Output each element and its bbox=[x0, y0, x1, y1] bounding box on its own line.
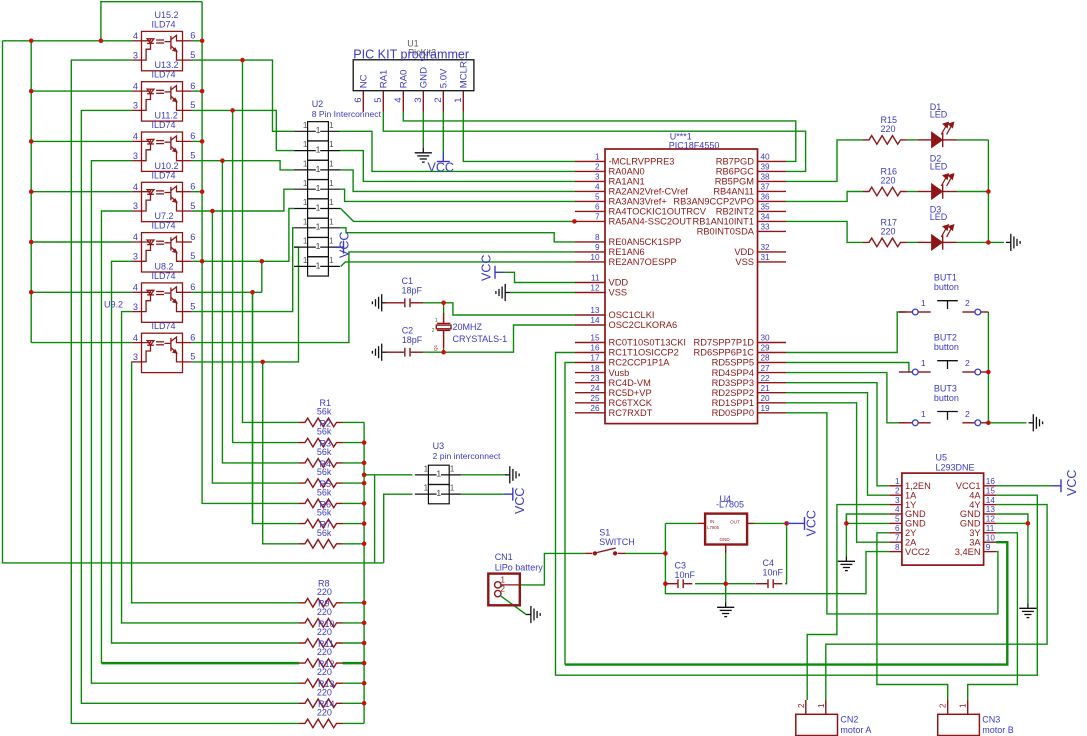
svg-text:RA5AN4-SSC2OUT: RA5AN4-SSC2OUT bbox=[609, 217, 692, 227]
U5 pin 4 GND bbox=[889, 513, 902, 515]
svg-text:19: 19 bbox=[761, 404, 771, 413]
svg-text:5: 5 bbox=[373, 97, 384, 102]
PIC pin 36 RB3AN9CCP2VPO bbox=[758, 200, 787, 202]
svg-text:2: 2 bbox=[501, 585, 506, 594]
svg-text:BUT1: BUT1 bbox=[934, 273, 957, 283]
junction bbox=[362, 601, 367, 606]
svg-text:RD6SPP6P1C: RD6SPP6P1C bbox=[694, 348, 755, 358]
svg-text:13: 13 bbox=[590, 306, 600, 315]
wire R17 to D3 bbox=[907, 241, 918, 243]
svg-text:PIC18F4550: PIC18F4550 bbox=[669, 141, 720, 151]
PIC pin 33 RB0INT0SDA bbox=[758, 230, 787, 232]
capacitor C3 body bbox=[666, 579, 693, 588]
PIC pin 17 RC2CCP1P1A bbox=[575, 362, 605, 364]
svg-text:4: 4 bbox=[133, 283, 138, 293]
junction bbox=[29, 240, 34, 245]
svg-text:2 pin interconnect: 2 pin interconnect bbox=[433, 451, 501, 461]
svg-text:RA3AN3Vref+: RA3AN3Vref+ bbox=[609, 197, 667, 207]
svg-text:4: 4 bbox=[133, 81, 138, 91]
wire opto pin3 #7 to 220 resistor bbox=[132, 362, 299, 603]
svg-text:VCC: VCC bbox=[338, 232, 352, 258]
U5 pin 14 4Y bbox=[984, 504, 997, 506]
svg-text:CN1: CN1 bbox=[495, 552, 513, 562]
wire PIC RD0 to L293 3,4EN bbox=[786, 413, 998, 614]
wire opto pin5 #5 bbox=[192, 260, 262, 262]
wire opto pin6 #2 to bus bbox=[192, 90, 202, 92]
optocoupler U10.2 (ILD74) bbox=[132, 182, 192, 221]
svg-text:6: 6 bbox=[190, 332, 195, 342]
svg-text:18pF: 18pF bbox=[402, 335, 423, 345]
svg-text:37: 37 bbox=[761, 183, 771, 192]
U5 pin 5 GND bbox=[889, 522, 902, 524]
svg-text:22: 22 bbox=[761, 374, 771, 383]
wire 56k R7 right lead to bus bbox=[343, 543, 365, 545]
junction bbox=[362, 473, 367, 478]
optocoupler U13.2 (ILD74) bbox=[132, 82, 192, 121]
svg-text:1: 1 bbox=[303, 179, 308, 188]
wire opto row pin4 #6 bbox=[31, 291, 132, 293]
wire opto pin5 #3 bbox=[192, 161, 294, 170]
PIC pin 31 VSS bbox=[758, 261, 787, 263]
PIC pin 27 RD4SPP4 bbox=[758, 372, 787, 374]
svg-text:RA0AN0: RA0AN0 bbox=[609, 167, 645, 177]
wire left anode bus x31 bbox=[30, 41, 32, 343]
wire 220 R8 right lead to bus bbox=[343, 602, 365, 604]
svg-text:11: 11 bbox=[591, 274, 600, 283]
junction bbox=[260, 259, 265, 264]
wire opto pin5 #2 bbox=[192, 110, 294, 150]
resistor R2 56k bbox=[299, 438, 343, 447]
svg-text:VDD: VDD bbox=[609, 278, 629, 288]
junction C2 node bbox=[441, 350, 446, 355]
svg-text:U13.2: U13.2 bbox=[155, 60, 179, 70]
svg-text:6: 6 bbox=[895, 524, 900, 533]
svg-text:40: 40 bbox=[761, 153, 771, 162]
wire L293 GND pin12 bbox=[996, 522, 1028, 524]
svg-text:1: 1 bbox=[817, 703, 826, 708]
wire far-left battery drop bbox=[3, 41, 384, 563]
svg-text:5: 5 bbox=[595, 193, 600, 202]
wire node to L7805 IN bbox=[665, 522, 697, 524]
svg-text:220: 220 bbox=[317, 627, 332, 637]
PIC pin 8 RE0AN5CK1SPP bbox=[575, 241, 605, 243]
wire U3 pin1 feed bbox=[364, 474, 412, 476]
junction bbox=[362, 681, 367, 686]
wire U3 pin1 to ground bbox=[461, 474, 505, 476]
wire opto row pin4 #4 bbox=[31, 191, 132, 193]
svg-text:C2: C2 bbox=[402, 326, 414, 336]
wire opto pin3 #4 to 220 resistor bbox=[101, 211, 132, 663]
svg-text:RB2INT2: RB2INT2 bbox=[716, 207, 754, 217]
svg-text:1: 1 bbox=[436, 488, 441, 498]
svg-text:U2: U2 bbox=[312, 99, 324, 109]
svg-text:3: 3 bbox=[133, 302, 138, 312]
crystal Q1 20MHZ CRYSTALS-1 bbox=[436, 313, 451, 348]
svg-text:VSS: VSS bbox=[735, 257, 754, 267]
wire crystal to C2 node bbox=[423, 348, 444, 352]
svg-text:1: 1 bbox=[316, 125, 321, 135]
svg-text:RD2SPP2: RD2SPP2 bbox=[712, 388, 754, 398]
junction bbox=[362, 661, 367, 666]
PIC pin 34 RB1AN10INT1 bbox=[758, 220, 787, 222]
optocoupler U7.2 (ILD74) bbox=[132, 233, 192, 272]
ground at C1 bbox=[372, 294, 386, 311]
svg-text:21: 21 bbox=[761, 384, 771, 393]
svg-text:1: 1 bbox=[595, 153, 600, 162]
svg-text:RA1: RA1 bbox=[378, 70, 389, 89]
svg-text:1: 1 bbox=[303, 140, 308, 149]
svg-text:motor A: motor A bbox=[840, 725, 871, 735]
svg-text:-MCLRVPPRE3: -MCLRVPPRE3 bbox=[609, 157, 675, 167]
junction bbox=[362, 701, 367, 706]
connector U2 pin 7 bbox=[294, 237, 340, 256]
wire PICkit RA0 PGD line bbox=[403, 112, 796, 161]
PIC pin 19 RD0SPP0 bbox=[758, 412, 787, 414]
button BUT1 bbox=[899, 311, 989, 313]
U1 pin 3 (GND) bbox=[422, 91, 424, 112]
svg-text:56k: 56k bbox=[317, 528, 332, 538]
resistor R14 220 bbox=[299, 719, 343, 728]
svg-text:5: 5 bbox=[190, 251, 195, 261]
PIC pin 40 RB7PGD bbox=[758, 160, 787, 162]
optocoupler U9.2 (ILD74) bbox=[132, 333, 192, 372]
wire IN node vertical bbox=[664, 523, 666, 583]
U5 pin 3 1Y bbox=[889, 504, 902, 506]
svg-text:4: 4 bbox=[133, 182, 138, 192]
wire opto pin5 #1 bbox=[192, 60, 294, 131]
svg-text:LED: LED bbox=[930, 110, 948, 120]
svg-text:C3: C3 bbox=[675, 561, 687, 571]
svg-text:7: 7 bbox=[895, 533, 900, 542]
svg-text:RC2CCP1P1A: RC2CCP1P1A bbox=[609, 358, 671, 368]
svg-text:VCC: VCC bbox=[513, 488, 527, 514]
svg-text:VSS: VSS bbox=[609, 288, 628, 298]
U5 pin 2 1A bbox=[889, 494, 902, 496]
svg-text:ILD74: ILD74 bbox=[152, 120, 176, 130]
optocoupler U11.2 (ILD74) bbox=[132, 132, 192, 171]
junction bbox=[362, 481, 367, 486]
wire 56k feed #3 bbox=[222, 161, 299, 463]
resistor R1 56k bbox=[299, 418, 343, 427]
VCC supply at PICkit 5.0V bbox=[437, 153, 450, 162]
U5 pin 16 VCC1 bbox=[984, 485, 997, 487]
svg-text:RD0SPP0: RD0SPP0 bbox=[712, 408, 754, 418]
wire opto pin5 #7 bbox=[192, 247, 299, 362]
wire L293 VCC1 to VCC bbox=[996, 485, 1052, 487]
wire PIC RD2 to L293 1A bbox=[786, 393, 889, 496]
svg-text:9: 9 bbox=[986, 543, 991, 552]
wire 56k feed #7 bbox=[263, 362, 299, 544]
svg-text:8: 8 bbox=[895, 543, 900, 552]
U5 pin 10 3A bbox=[984, 541, 997, 543]
svg-text:ILD74: ILD74 bbox=[152, 271, 176, 281]
svg-text:RA0: RA0 bbox=[398, 70, 409, 89]
wire PICkit MCLR to PIC pin 1 bbox=[463, 112, 575, 161]
wire opto U9.2 pin6 to PIC RE1AN6 bbox=[192, 252, 575, 343]
svg-text:ILD74: ILD74 bbox=[152, 321, 176, 331]
connector U2 pin 6 bbox=[294, 218, 340, 237]
svg-text:11: 11 bbox=[986, 524, 995, 533]
wire opto row pin4 #7 bbox=[31, 342, 132, 344]
svg-text:6: 6 bbox=[190, 81, 195, 91]
svg-text:3: 3 bbox=[133, 50, 138, 60]
junction bbox=[29, 290, 34, 295]
junction bbox=[29, 189, 34, 194]
svg-text:VCC2: VCC2 bbox=[905, 547, 930, 557]
U5 pin 1 1,2EN bbox=[889, 485, 902, 487]
wire LED cathode bus bbox=[988, 140, 1004, 243]
svg-text:LiPo battery: LiPo battery bbox=[495, 562, 544, 572]
ground at L293 right bbox=[1019, 604, 1036, 618]
connector U2 pin 2 bbox=[294, 141, 340, 160]
wire PIC RD4 to BUT3 bbox=[786, 373, 906, 423]
svg-text:15: 15 bbox=[986, 486, 996, 495]
PIC pin 9 RE1AN6 bbox=[575, 251, 605, 253]
junction bbox=[986, 189, 991, 194]
svg-text:button: button bbox=[934, 393, 959, 403]
svg-text:2: 2 bbox=[895, 486, 900, 495]
resistor R16 220 bbox=[863, 187, 907, 196]
svg-text:3: 3 bbox=[133, 201, 138, 211]
svg-text:1: 1 bbox=[303, 237, 308, 246]
svg-text:1: 1 bbox=[329, 217, 334, 226]
wire L7805 OUT to VCC node bbox=[755, 522, 787, 524]
wire 220 R12 right lead to bus bbox=[343, 682, 365, 684]
svg-text:5: 5 bbox=[895, 515, 900, 524]
PIC pin 28 RD5SPP5 bbox=[758, 362, 787, 364]
connector U2 pin 3 bbox=[294, 160, 340, 179]
VCC supply at U2 pin7 bbox=[335, 241, 344, 254]
ground at C3/C4 rail bbox=[717, 603, 734, 617]
svg-text:2: 2 bbox=[939, 703, 948, 708]
svg-text:20: 20 bbox=[761, 394, 771, 403]
svg-text:24: 24 bbox=[590, 384, 600, 393]
svg-text:3: 3 bbox=[895, 496, 900, 505]
svg-text:10nF: 10nF bbox=[675, 570, 696, 580]
svg-text:4: 4 bbox=[133, 132, 138, 142]
LED D1 bbox=[917, 123, 956, 148]
svg-text:25: 25 bbox=[590, 394, 600, 403]
junction bbox=[29, 89, 34, 94]
resistor R5 56k bbox=[299, 499, 343, 508]
svg-text:U9.2: U9.2 bbox=[104, 300, 123, 310]
svg-text:VCC: VCC bbox=[805, 510, 819, 536]
wire U2 pin5 diagonal to PIC RA5 bbox=[340, 209, 575, 222]
button BUT2 bbox=[899, 371, 989, 373]
svg-text:1: 1 bbox=[921, 409, 926, 419]
wire U2 pin4 to PIC pin 5 bbox=[340, 189, 575, 201]
wire button bus bbox=[988, 312, 1026, 423]
svg-text:10nF: 10nF bbox=[763, 568, 784, 578]
PIC pin 32 VDD bbox=[758, 251, 787, 253]
junction bbox=[240, 58, 245, 63]
svg-text:1: 1 bbox=[424, 484, 429, 493]
resistor R11 220 bbox=[299, 659, 343, 668]
PIC pin 21 RD2SPP2 bbox=[758, 392, 787, 394]
svg-text:4: 4 bbox=[133, 232, 138, 242]
junction battery node at C3 bbox=[663, 581, 668, 586]
svg-text:1: 1 bbox=[435, 318, 438, 324]
VCC supply at U3 pin2 bbox=[504, 488, 513, 501]
wire opto pin3 #1 to 220 resistor bbox=[71, 60, 299, 723]
svg-text:5: 5 bbox=[190, 100, 195, 110]
svg-text:CRYSTALS-1: CRYSTALS-1 bbox=[453, 334, 508, 344]
junction bbox=[200, 39, 205, 44]
svg-text:3: 3 bbox=[133, 352, 138, 362]
wire 220 R9 right lead to bus bbox=[343, 622, 365, 624]
wire U2 pin3 to PIC pin 4 bbox=[340, 170, 575, 192]
svg-text:39: 39 bbox=[761, 163, 771, 172]
capacitor C2 body bbox=[387, 348, 424, 357]
svg-text:5: 5 bbox=[190, 151, 195, 161]
svg-text:4: 4 bbox=[133, 31, 138, 41]
svg-text:RB1AN10INT1: RB1AN10INT1 bbox=[693, 217, 755, 227]
PIC pin 13 OSC1CLKI bbox=[575, 314, 605, 316]
wire U2 pin7 to VCC bbox=[335, 246, 341, 248]
svg-text:PIC KIT programmer: PIC KIT programmer bbox=[353, 47, 469, 61]
svg-text:220: 220 bbox=[317, 587, 332, 597]
wire U7.2 pin5 branch down bbox=[261, 261, 263, 292]
junction battery node bbox=[663, 551, 668, 556]
svg-text:1: 1 bbox=[453, 97, 464, 102]
wire 3A bottom run bbox=[565, 542, 1007, 664]
svg-text:4: 4 bbox=[595, 183, 600, 192]
svg-text:6: 6 bbox=[190, 282, 195, 292]
svg-text:button: button bbox=[934, 342, 959, 352]
wire opto pin3 #5 to 220 resistor bbox=[112, 261, 300, 643]
svg-text:RD5SPP5: RD5SPP5 bbox=[712, 358, 754, 368]
svg-text:1: 1 bbox=[501, 575, 506, 584]
wire opto pin3 #2 to 220 resistor bbox=[81, 110, 299, 703]
svg-text:3: 3 bbox=[413, 97, 424, 102]
wire opto pin6 #1 to bus bbox=[192, 40, 202, 42]
svg-text:6: 6 bbox=[595, 203, 600, 212]
svg-text:RE1AN6: RE1AN6 bbox=[609, 247, 645, 257]
wire opto row pin4 #2 bbox=[31, 90, 132, 92]
svg-text:56k: 56k bbox=[317, 467, 332, 477]
svg-text:RA1AN1: RA1AN1 bbox=[609, 177, 645, 187]
svg-text:RD1SPP1: RD1SPP1 bbox=[712, 398, 754, 408]
svg-text:23: 23 bbox=[590, 374, 600, 383]
svg-text:MCLR: MCLR bbox=[458, 61, 469, 88]
svg-text:35: 35 bbox=[761, 203, 771, 212]
svg-text:3,4EN: 3,4EN bbox=[955, 547, 981, 557]
wire L7805 GND down bbox=[725, 553, 727, 603]
PIC pin 7 RA5AN4-SSC2OUT bbox=[575, 220, 605, 222]
wire CN1 pin1 to switch bbox=[519, 553, 585, 585]
svg-text:RD4SPP4: RD4SPP4 bbox=[712, 368, 754, 378]
wire PIC RC2 to L293 3A bbox=[565, 363, 575, 665]
junction bbox=[200, 189, 205, 194]
svg-text:1: 1 bbox=[316, 183, 321, 193]
PIC pin 15 RC0T10S0T13CKI bbox=[575, 342, 605, 344]
optocoupler U8.2 (ILD74) bbox=[132, 283, 192, 322]
junction L293 GND right bbox=[1026, 521, 1031, 526]
wire R16 to D2 bbox=[907, 191, 918, 193]
U5 pin 6 2Y bbox=[889, 532, 902, 534]
wire VCC to PIC VDD bbox=[504, 272, 575, 282]
U1 pin 1 (MCLR) bbox=[462, 91, 464, 112]
wire 56k R6 right lead to bus bbox=[343, 523, 365, 525]
wire opto row pin4 #5 bbox=[31, 241, 132, 243]
connector U2 pin 8 bbox=[294, 257, 340, 276]
resistor R13 220 bbox=[299, 699, 343, 708]
svg-text:OSC2CLKORA6: OSC2CLKORA6 bbox=[609, 320, 678, 330]
PIC pin 12 VSS bbox=[575, 292, 605, 294]
svg-text:button: button bbox=[934, 282, 959, 292]
PIC pin 24 RC5D+VP bbox=[575, 392, 605, 394]
regulator U4 L7805 bbox=[705, 514, 747, 545]
PIC pin 38 RB5PGM bbox=[758, 180, 787, 182]
junction bbox=[260, 360, 265, 365]
svg-text:9: 9 bbox=[595, 243, 600, 252]
svg-text:18: 18 bbox=[590, 364, 600, 373]
ground at PIC VSS bbox=[496, 284, 510, 301]
resistor R12 220 bbox=[299, 679, 343, 688]
svg-text:1: 1 bbox=[329, 159, 334, 168]
ground at LEDs bbox=[1006, 234, 1020, 251]
PIC pin 16 RC1T1OSICCP2 bbox=[575, 352, 605, 354]
junction bbox=[362, 641, 367, 646]
junction bbox=[250, 290, 255, 295]
svg-text:RC0T10S0T13CKI: RC0T10S0T13CKI bbox=[609, 338, 687, 348]
PIC pin 6 RA4TOCKIC1OUTRCV bbox=[575, 210, 605, 212]
PIC pin 39 RB6PGC bbox=[758, 170, 787, 172]
svg-text:220: 220 bbox=[317, 647, 332, 657]
svg-text:RC4D-VM: RC4D-VM bbox=[609, 378, 651, 388]
wire D2 cathode bbox=[957, 191, 989, 193]
U4 OUT pin bbox=[747, 522, 755, 524]
wire C3 left bbox=[665, 583, 667, 585]
svg-text:220: 220 bbox=[881, 124, 896, 134]
ground at C2 bbox=[372, 344, 386, 361]
svg-text:1: 1 bbox=[921, 298, 926, 308]
svg-text:3: 3 bbox=[595, 173, 600, 182]
wire PICkit 5.0V to VCC bbox=[442, 112, 444, 153]
wire opto row pin4 #1 bbox=[3, 40, 133, 42]
wire L293 GND pin5 bbox=[846, 522, 889, 524]
svg-text:6: 6 bbox=[190, 182, 195, 192]
svg-text:S1: S1 bbox=[599, 528, 610, 538]
wire PICkit GND bbox=[422, 112, 424, 148]
svg-text:ILD74: ILD74 bbox=[152, 19, 176, 29]
ground at L293 left bbox=[838, 557, 855, 571]
svg-text:18pF: 18pF bbox=[402, 286, 423, 296]
svg-text:-L7805: -L7805 bbox=[716, 500, 744, 510]
U5 pin 8 VCC2 bbox=[889, 551, 902, 553]
svg-text:U5: U5 bbox=[936, 453, 948, 463]
LED D2 bbox=[917, 174, 956, 199]
PIC pin 10 RE2AN7OESPP bbox=[575, 261, 605, 263]
ground at U3 pin1 bbox=[505, 466, 519, 483]
junction bbox=[99, 39, 104, 44]
svg-text:10: 10 bbox=[986, 533, 996, 542]
PIC pin 22 RD3SPP3 bbox=[758, 382, 787, 384]
svg-text:LED: LED bbox=[930, 212, 948, 222]
svg-text:2: 2 bbox=[432, 328, 435, 334]
connector U2 pin 4 bbox=[294, 180, 340, 199]
junction bbox=[362, 621, 367, 626]
wire L293 4Y to CN2 pin1 bbox=[826, 505, 1047, 700]
wire C3 to rail bbox=[695, 583, 755, 585]
wire top loop net (pin6 bus to row1) bbox=[101, 2, 202, 41]
svg-text:16: 16 bbox=[986, 477, 996, 486]
svg-text:6: 6 bbox=[353, 97, 364, 102]
svg-text:12: 12 bbox=[590, 284, 600, 293]
svg-text:220: 220 bbox=[317, 707, 332, 717]
wire battery to L293 VCC2 bbox=[665, 552, 889, 594]
svg-text:5: 5 bbox=[190, 352, 195, 362]
